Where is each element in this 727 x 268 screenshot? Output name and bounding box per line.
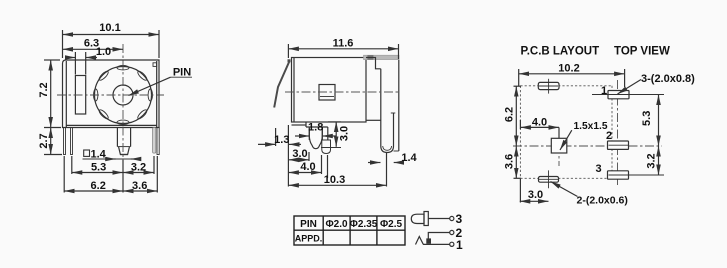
- svg-text:Φ2.5: Φ2.5: [380, 219, 403, 230]
- svg-text:10.2: 10.2: [558, 63, 579, 75]
- svg-text:6.2: 6.2: [504, 107, 516, 122]
- svg-text:10.1: 10.1: [99, 22, 120, 34]
- svg-text:PIN: PIN: [300, 219, 317, 230]
- svg-text:3-(2.0x0.8): 3-(2.0x0.8): [641, 73, 695, 85]
- svg-text:PIN: PIN: [173, 66, 191, 78]
- svg-text:11.6: 11.6: [333, 38, 354, 50]
- svg-text:5.3: 5.3: [91, 162, 106, 174]
- svg-text:APPD.: APPD.: [295, 234, 323, 244]
- svg-text:10.3: 10.3: [324, 174, 345, 186]
- svg-text:3.0: 3.0: [292, 148, 307, 160]
- svg-text:3.6: 3.6: [504, 154, 516, 169]
- svg-text:3.2: 3.2: [131, 162, 146, 174]
- svg-text:Φ2.35: Φ2.35: [350, 219, 378, 230]
- svg-text:1: 1: [601, 85, 607, 97]
- svg-text:Φ2.0: Φ2.0: [325, 219, 348, 230]
- svg-text:1: 1: [456, 238, 463, 252]
- svg-text:6.2: 6.2: [91, 180, 106, 192]
- svg-text:5.3: 5.3: [641, 111, 653, 126]
- svg-text:3: 3: [456, 212, 463, 226]
- svg-text:3.2: 3.2: [646, 153, 658, 168]
- svg-text:7.2: 7.2: [38, 82, 50, 97]
- svg-text:4.0: 4.0: [532, 116, 547, 128]
- svg-text:3.0: 3.0: [339, 126, 351, 141]
- svg-text:2-(2.0x0.6): 2-(2.0x0.6): [577, 195, 628, 207]
- svg-text:1.0: 1.0: [96, 46, 111, 58]
- svg-text:P.C.B LAYOUT: P.C.B LAYOUT: [521, 46, 600, 58]
- svg-text:2.7: 2.7: [38, 133, 50, 148]
- svg-text:1.4: 1.4: [91, 149, 107, 161]
- svg-text:2: 2: [606, 130, 612, 142]
- svg-text:TOP VIEW: TOP VIEW: [614, 46, 670, 58]
- svg-text:1.5x1.5: 1.5x1.5: [574, 121, 608, 132]
- svg-text:4.0: 4.0: [300, 161, 315, 173]
- svg-text:3.6: 3.6: [132, 180, 147, 192]
- svg-text:3.0: 3.0: [528, 189, 543, 201]
- svg-text:1.4: 1.4: [401, 152, 417, 164]
- svg-text:3: 3: [595, 163, 601, 175]
- svg-text:1.8: 1.8: [308, 122, 323, 134]
- svg-text:1.3: 1.3: [274, 134, 289, 146]
